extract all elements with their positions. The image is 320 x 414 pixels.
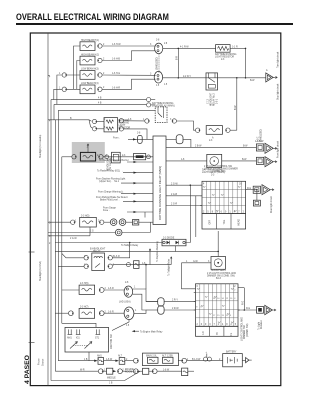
svg-text:1.5: 1.5: [164, 84, 168, 86]
T3 pin digits: [200, 184, 247, 214]
svg-text:2 G-W: 2 G-W: [171, 183, 178, 185]
connectors to H3: [62, 73, 102, 77]
connector right of H6: [99, 288, 104, 293]
svg-text:1-6 H-R: 1-6 H-R: [112, 88, 120, 90]
svg-text:2 G-B: 2 G-B: [171, 194, 177, 196]
svg-text:2 B-W: 2 B-W: [195, 146, 202, 148]
title underline: [16, 23, 293, 25]
svg-text:2-8 J: 2-8 J: [217, 99, 219, 104]
svg-text:4 PASEO: 4 PASEO: [24, 355, 31, 384]
svg-text:OFF: OFF: [210, 219, 212, 224]
wire from A4 node down to J-box: [256, 190, 258, 201]
svg-text:Rear light circuit: Rear light circuit: [270, 196, 273, 213]
sidebar wire ticks: [49, 120, 51, 245]
wire T1 right to relay circle box: [166, 159, 207, 161]
node at x176 top: [178, 48, 180, 50]
svg-text:LOW BEAM H(4): LOW BEAM H(4): [81, 82, 99, 85]
svg-text:4: 4: [49, 77, 51, 79]
node x190.3: [190, 184, 192, 186]
wire H1 to E1: [102, 44, 156, 46]
svg-text:14: 14: [222, 298, 225, 300]
wire FB2 to connector: [125, 360, 134, 362]
flow arrow A2: [265, 143, 277, 153]
T1 feed wire with sausage fuses: [113, 132, 191, 147]
T3 bottom band (OFF/TAIL/HEAD): [202, 214, 246, 229]
svg-text:DAYTIME RUNNING LIGHT RELAY [M: DAYTIME RUNNING LIGHT RELAY [MAIN]: [158, 166, 162, 220]
bottom return wire: [51, 371, 140, 384]
wire relay to H5: [177, 121, 196, 130]
rotated tag above S1: [258, 129, 263, 142]
wire H6 to E3: [104, 288, 124, 290]
wire T2 out to square S4: [238, 288, 257, 311]
svg-text:LIGHT CONTROL AND DIMMER: LIGHT CONTROL AND DIMMER: [204, 167, 238, 170]
junction box J13: [253, 200, 260, 206]
diode box D1: [162, 237, 186, 245]
svg-text:(Upper Sw) ← No.1: (Upper Sw) ← No.1: [99, 180, 120, 183]
connector row B 3: [122, 369, 138, 374]
arrow after box: [113, 370, 116, 372]
gray highlight (headlight component): [72, 142, 105, 163]
headlight H2: [80, 53, 99, 65]
svg-text:FL: FL: [231, 332, 233, 335]
section tick (USA/Power): [29, 342, 35, 344]
wire resistor to relay: [119, 119, 147, 140]
wire H1 left feed: [74, 46, 81, 89]
svg-text:Headlight (for USA): Headlight (for USA): [39, 261, 42, 281]
svg-text:1-6 H-G: 1-6 H-G: [112, 73, 120, 75]
svg-text:1.5: 1.5: [156, 85, 160, 87]
svg-text:3: 3: [209, 324, 211, 326]
svg-text:1: 1: [134, 287, 136, 289]
svg-text:2 G: 2 G: [90, 231, 94, 233]
sidebar pin tag: [48, 76, 51, 79]
wire R1 to corner: [230, 47, 245, 49]
vertical taillight feed: [182, 263, 196, 289]
svg-text:1-6 H-B: 1-6 H-B: [112, 59, 120, 61]
front side marker light box: [80, 216, 97, 228]
label right of highlighted headlight: [107, 157, 113, 171]
svg-text:ALT 1.25B: ALT 1.25B: [162, 354, 173, 357]
svg-text:2 15 LIGHT CONTROL AND: 2 15 LIGHT CONTROL AND: [207, 272, 236, 275]
svg-text:2-8: 2-8: [137, 132, 141, 134]
svg-text:HIGH BEAM H(2): HIGH BEAM H(2): [81, 53, 99, 56]
svg-text:1 B: 1 B: [109, 383, 113, 385]
connector left of H5: [196, 128, 201, 132]
T1 input wire 4: [98, 191, 153, 195]
U3 right wire upper: [112, 242, 130, 258]
svg-text:R-G: R-G: [242, 301, 244, 305]
connector square S4: [257, 306, 264, 313]
wire E1 to resistor R1: [163, 47, 238, 49]
svg-text:2: 2: [197, 324, 199, 326]
wire FB1-FB2: [104, 359, 116, 361]
fuse FB3: [182, 368, 194, 376]
DRL resistor feed wire from sidebar: [48, 118, 92, 128]
connector row B 1: [98, 369, 103, 374]
engine tag arrow: [132, 330, 163, 333]
svg-text:HIGH BEAM H(1): HIGH BEAM H(1): [81, 39, 99, 42]
wire vertical x176: [176, 48, 178, 77]
row B label block: [125, 369, 137, 374]
connector E4: [124, 307, 134, 327]
headlight H7 (USA LH): [79, 307, 95, 319]
headlight H6 (USA RH): [79, 283, 95, 294]
connector pair into DRL relay: [147, 98, 156, 108]
svg-text:1-8 B-W: 1-8 B-W: [255, 141, 264, 143]
svg-text:2-8: 2-8: [156, 40, 160, 42]
svg-text:2 G-W: 2 G-W: [70, 238, 77, 240]
headlight relay U3 (for USA): [90, 248, 106, 271]
svg-text:2-2 R-Y: 2-2 R-Y: [183, 76, 191, 78]
twin connector E5: [110, 219, 126, 226]
svg-text:2 G-R: 2 G-R: [171, 204, 177, 206]
node at x245.5 bottom: [245, 77, 247, 79]
svg-text:To Engine Main Relay: To Engine Main Relay: [140, 331, 163, 333]
svg-text:2-3: 2-3: [221, 59, 225, 61]
headlight H5 (high, center): [206, 126, 222, 142]
connector E2 (headlight LH): [154, 71, 162, 86]
shielded dashed link E1-E2: [157, 54, 160, 73]
flow arrow A1: [266, 69, 277, 82]
U3 connectors: [84, 256, 112, 269]
sidebar divider line: [47, 33, 49, 386]
svg-text:4 B: 4 B: [98, 98, 102, 100]
svg-text:DIMMER SW (COMB. SW): DIMMER SW (COMB. SW): [207, 275, 235, 277]
T1 input wire 3: [96, 178, 153, 185]
svg-text:1: 1: [75, 220, 77, 222]
connector right of DRL relay: [172, 119, 177, 123]
wire D1 bottom return: [55, 246, 175, 252]
svg-text:2: 2: [234, 289, 236, 291]
svg-text:BATTERY: BATTERY: [226, 351, 237, 354]
resistor R1 (daytime running light resistor): [215, 45, 237, 62]
svg-text:To Taillight Relay: To Taillight Relay: [167, 258, 170, 276]
svg-text:2-3: 2-3: [209, 140, 213, 142]
fuse FB1 (AM1): [97, 355, 104, 365]
svg-text:AM1: AM1: [67, 337, 72, 340]
svg-text:Retainer: Retainer: [260, 320, 263, 329]
connectors to H4: [62, 87, 102, 91]
svg-text:2-3 DIODE: 2-3 DIODE: [163, 237, 175, 239]
ignition switch label: [111, 334, 113, 349]
svg-text:6: 6: [197, 286, 199, 288]
svg-text:IGNITION SW: IGNITION SW: [111, 334, 113, 349]
svg-text:LHD (USA): LHD (USA): [119, 301, 131, 304]
connector square S3: [253, 186, 260, 193]
svg-text:9: 9: [205, 324, 207, 326]
small box on marker row: [133, 220, 154, 226]
wire H4 left to margin: [54, 89, 80, 99]
node at x176 bottom: [178, 77, 180, 79]
svg-text:Front light circuit: Front light circuit: [276, 141, 279, 158]
flow arrow A3: [265, 157, 277, 167]
svg-text:1-6 H-W: 1-6 H-W: [112, 44, 121, 46]
wire E2 to arrow A (main low-beam run): [163, 76, 266, 82]
svg-text:TAIL: TAIL: [223, 219, 226, 224]
wire row y232.5: [48, 222, 150, 233]
svg-text:2 R-W: 2 R-W: [172, 308, 179, 310]
headlight H1 (LH high, for Canada): [80, 39, 99, 51]
svg-text:2-3 H(5): 2-3 H(5): [81, 216, 90, 218]
node on A4 wire: [256, 189, 258, 191]
wire highlighted headlight left to margin: [62, 156, 72, 158]
wire H2 left feed: [77, 61, 80, 90]
ignition switch box: [65, 327, 109, 352]
svg-text:LIGHT RESISTOR: LIGHT RESISTOR: [215, 57, 234, 59]
relay circle box RC (DRL relay main): [202, 154, 225, 176]
svg-text:AM1: AM1: [97, 355, 102, 358]
svg-text:G-W: G-W: [193, 261, 199, 263]
svg-text:15: 15: [217, 315, 220, 317]
svg-text:2: 2: [103, 58, 105, 60]
svg-text:6: 6: [201, 324, 203, 326]
svg-text:Headlight (for Canada): Headlight (for Canada): [39, 135, 42, 158]
svg-text:8: 8: [226, 324, 228, 326]
battery terminal connectors: [204, 352, 212, 361]
wire row y235.8: [48, 227, 90, 240]
svg-text:13: 13: [222, 315, 225, 317]
svg-text:MAIN 2.0L: MAIN 2.0L: [146, 354, 158, 357]
svg-text:A: A: [266, 69, 268, 72]
title: [16, 12, 169, 22]
svg-text:From Charge Warning Lt: From Charge Warning Lt: [98, 191, 124, 194]
svg-text:C 12: C 12: [208, 98, 210, 104]
svg-text:3: 3: [84, 256, 86, 258]
light control switch grid T3: [202, 181, 246, 213]
svg-text:RELAY No.2: RELAY No.2: [213, 92, 216, 106]
wire vertical x245.5: [245, 48, 247, 77]
high beam indicator arrow above headlight: [87, 143, 90, 152]
fusible link box FL: [143, 353, 179, 366]
svg-text:3: 3: [170, 119, 172, 121]
svg-text:B-13: B-13: [216, 278, 222, 280]
svg-text:B-W: B-W: [250, 80, 255, 82]
margin bus wire 2: [54, 103, 146, 120]
svg-text:17: 17: [213, 315, 216, 317]
connector to H2: [98, 58, 103, 62]
T3 header label: [204, 166, 238, 173]
section tick (Canada/USA): [29, 251, 35, 253]
tall relay box T1 DAYTIME RUNNING LIGHT RELAY MAIN: [153, 136, 166, 225]
T1 input wire 1: [99, 159, 153, 163]
svg-text:2.8: 2.8: [164, 43, 168, 45]
svg-text:ALT: ALT: [118, 355, 123, 358]
svg-text:HI: HI: [217, 332, 219, 335]
svg-text:SOLAR SENS: SOLAR SENS: [211, 269, 226, 272]
svg-text:2-8: 2-8: [125, 282, 129, 284]
battery: [223, 351, 243, 367]
connector after FL: [178, 358, 186, 363]
node at x236.8 on low beam run: [236, 77, 238, 79]
svg-text:W-R: W-R: [80, 369, 85, 371]
svg-text:5: 5: [235, 324, 237, 326]
junction block box row B: [103, 368, 113, 374]
oval fuse O1: [146, 298, 196, 306]
flow arrow A4: [262, 185, 274, 195]
U3 right wire lower with fuse: [112, 261, 171, 289]
connector E1 (headlight RH): [155, 40, 163, 54]
wire T1 to T3 row c: [166, 204, 202, 206]
scattered pin numbers: [59, 43, 221, 371]
svg-text:1-8 W: 1-8 W: [106, 359, 113, 361]
T2 header: [207, 269, 236, 280]
svg-text:1: 1: [135, 310, 137, 312]
T2 pin digits: [194, 286, 240, 326]
connector right of H5: [226, 128, 231, 132]
arrow after battery: [242, 358, 251, 363]
svg-text:2: 2: [231, 324, 233, 326]
small box row B: [138, 368, 149, 374]
oval fuse O2: [146, 306, 196, 314]
U2 pin labels: [208, 92, 219, 106]
margin vertical wire 4: [54, 120, 56, 371]
svg-text:To Flasher Relay (IG1) →: To Flasher Relay (IG1) →: [97, 170, 123, 173]
wire D1 right up to T3 row: [186, 185, 190, 242]
svg-text:LO: LO: [203, 331, 205, 334]
connector square S2: [256, 157, 263, 164]
T1 input wire 5: [96, 196, 153, 203]
connector E3: [124, 282, 133, 297]
svg-text:10: 10: [230, 298, 233, 300]
wires E3/E4 verticals: [133, 289, 158, 310]
connector row B 2: [118, 369, 123, 374]
svg-text:LIGHT CONTROL AND: LIGHT CONTROL AND: [241, 317, 244, 341]
svg-text:1: 1: [84, 265, 86, 267]
svg-text:ST1: ST1: [95, 338, 100, 340]
power row A wire: [58, 359, 94, 361]
svg-text:4-1 R-W: 4-1 R-W: [180, 47, 189, 49]
arrow into fuse FB2: [115, 360, 119, 362]
T2 bottom band: [196, 326, 239, 336]
wire to D1 left: [55, 242, 162, 244]
connectors H7: [69, 311, 105, 316]
svg-text:To Taillight Relay: To Taillight Relay: [121, 244, 139, 247]
svg-text:2: 2: [103, 73, 105, 75]
svg-text:7: 7: [214, 324, 216, 326]
svg-text:Power: Power: [38, 358, 41, 365]
svg-text:IG1: IG1: [76, 338, 80, 340]
wire H7 left: [55, 312, 68, 314]
connectors at highlighted headlight: [72, 155, 103, 159]
wire RC to flow arrow row2: [222, 159, 257, 161]
svg-text:8: 8: [196, 306, 198, 308]
wire H4 to E2: [102, 79, 156, 89]
wire to taillight relay box: [182, 261, 212, 263]
wire to fuse FB3: [157, 369, 182, 371]
wire H7 to E4: [104, 311, 124, 313]
svg-text:LIGHT RELAY (MAIN): LIGHT RELAY (MAIN): [152, 104, 175, 107]
svg-text:B 1-8 W: B 1-8 W: [192, 359, 201, 361]
svg-text:(COMB. SW): (COMB. SW): [212, 171, 226, 173]
svg-text:Source: Source: [42, 358, 45, 366]
svg-text:1: 1: [218, 324, 220, 326]
twin connector E6: [115, 229, 122, 236]
U3 left feed wires: [58, 254, 84, 267]
daytime running light resistor box: [97, 118, 131, 132]
wire highlighted headlight to T1 with inline fuses: [103, 152, 153, 163]
svg-text:R-G: R-G: [246, 308, 250, 310]
svg-text:Brake Fluid Level ←: Brake Fluid Level ←: [100, 198, 121, 201]
margin bus wire 1: [51, 98, 146, 381]
S4 tag below: [258, 320, 264, 330]
front side marker row: connector: [71, 220, 76, 224]
svg-text:LOW BEAM H(3): LOW BEAM H(3): [81, 68, 99, 71]
svg-text:R-G: R-G: [247, 188, 251, 190]
margin vertical wire 5: [61, 157, 63, 323]
wire T1 right upper to flow arrow row1: [166, 146, 256, 148]
svg-text:1-6 R: 1-6 R: [108, 311, 114, 313]
svg-text:RELAY: RELAY: [93, 250, 101, 253]
wire into ignition from margin: [62, 323, 96, 327]
svg-text:HEAD: HEAD: [238, 219, 241, 226]
svg-text:Turn light circuit: Turn light circuit: [276, 52, 279, 68]
svg-text:9: 9: [230, 315, 232, 317]
svg-text:2: 2: [103, 44, 105, 46]
svg-text:16: 16: [217, 298, 220, 300]
wire H3 left to margin: [57, 75, 80, 104]
svg-text:18: 18: [213, 298, 216, 300]
power row B wire: [55, 369, 98, 371]
svg-text:4: 4: [203, 184, 205, 186]
svg-text:1-6 R: 1-6 R: [108, 288, 114, 290]
T1 input wire 2: [97, 170, 153, 174]
node at x245.5 top: [245, 48, 247, 50]
headlight H3: [80, 68, 99, 80]
connector row B 4: [149, 369, 157, 374]
svg-text:11: 11: [226, 315, 229, 317]
connector square S1: [255, 141, 264, 151]
svg-text:From ←: From ←: [113, 136, 121, 139]
wire T1 to T3 row a: [166, 183, 202, 185]
svg-text:2-3 H(6): 2-3 H(6): [80, 283, 89, 285]
T1 input wire 6: [103, 206, 153, 217]
svg-text:(COMB. SW): (COMB. SW): [247, 323, 249, 337]
flow arrow A5: [265, 305, 276, 314]
svg-text:(SHIELDED): (SHIELDED): [157, 57, 159, 70]
T2 side label: [241, 317, 249, 341]
svg-text:12: 12: [226, 298, 229, 300]
connector row A: [134, 358, 139, 363]
svg-text:Fuse ←: Fuse ←: [103, 210, 111, 212]
dimmer switch grid T2: [196, 284, 239, 327]
wire ignition to row A: [88, 352, 90, 361]
svg-text:2-3: 2-3: [211, 174, 215, 176]
svg-text:1 B: 1 B: [84, 359, 88, 361]
wire H6 left: [62, 289, 79, 291]
wire marker row: [48, 221, 133, 223]
fuse FB2 (ALT): [118, 355, 125, 365]
wire FL to battery: [187, 359, 223, 361]
diagonal wire to E4 bottom: [112, 320, 129, 331]
wire T1 to T3 row b: [166, 194, 202, 196]
svg-text:12: 12: [233, 286, 236, 288]
wire E4 to oval fuse row: [134, 310, 146, 313]
daytime running light relay (main) dashed box: [152, 102, 175, 122]
svg-text:DIMMER SW: DIMMER SW: [244, 325, 246, 339]
DRL resistor connectors: [92, 119, 97, 131]
svg-text:B-R: B-R: [176, 56, 178, 60]
taillight relay branch arrow (up): [167, 256, 172, 276]
connector left of DRL relay: [145, 119, 150, 123]
svg-text:1-8 W: 1-8 W: [163, 369, 170, 371]
svg-text:3: 3: [104, 127, 106, 129]
connector to H1: [98, 44, 103, 48]
headlight H4: [80, 82, 99, 94]
connector right of marker light: [99, 220, 104, 224]
arrow into fuse FB1: [94, 360, 98, 362]
svg-text:To Light: To Light: [258, 322, 261, 330]
svg-text:(SHIELDED): (SHIELDED): [260, 129, 262, 142]
